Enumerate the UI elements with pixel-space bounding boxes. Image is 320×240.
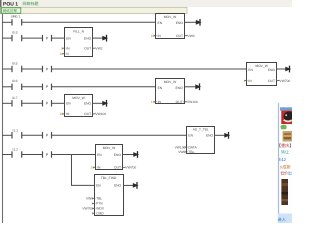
svg-text:P: P (46, 67, 49, 71)
wire contact to P (22, 102, 43, 104)
svg-text:EN: EN (96, 184, 101, 188)
value 10 on IN pin U7 (90, 166, 96, 170)
wire rail to contact (2, 37, 12, 39)
contact I0.6 (12, 84, 22, 90)
wire contact to P (22, 134, 43, 136)
network comment row (1, 7, 188, 13)
contact P positive edge (43, 66, 52, 72)
svg-text:ENO: ENO (206, 134, 214, 138)
value 10 on N pin U2 (59, 52, 65, 56)
block U8 TBL_FIND (95, 175, 124, 216)
block U7 MOV_W (96, 145, 123, 170)
value 1 on IN pin U3 (243, 79, 247, 83)
ENO arrow net 4 (184, 83, 201, 90)
value VW0 on TBL pin U8 (86, 197, 95, 201)
svg-text:OUT: OUT (176, 100, 183, 104)
svg-text:I0.3: I0.3 (12, 30, 18, 34)
svg-text:POU 1: POU 1 (3, 1, 18, 7)
svg-text:FILL_N: FILL_N (73, 29, 84, 33)
svg-text:I0.6: I0.6 (12, 79, 18, 83)
block U4 MOV_W (156, 79, 185, 105)
svg-text:VW700: VW700 (280, 79, 291, 83)
wire P to block U3 (52, 68, 247, 70)
contact I0.5 (12, 66, 22, 72)
svg-text:VW100: VW100 (95, 112, 106, 116)
wire rail to contact (2, 154, 12, 156)
svg-text:OUT: OUT (84, 47, 91, 51)
value VW100 on OUT pin U5 (92, 112, 106, 116)
value VW700 on INDX pin U8 (82, 207, 95, 211)
svg-text:CMD: CMD (96, 212, 104, 216)
svg-text:I0.5: I0.5 (12, 61, 18, 65)
svg-text:EN: EN (66, 36, 71, 40)
svg-text:VW700: VW700 (82, 207, 93, 211)
svg-text:ENO: ENO (176, 21, 184, 25)
svg-text:P: P (46, 153, 49, 157)
svg-text:VW100: VW100 (175, 145, 186, 149)
svg-text:ENO: ENO (175, 86, 183, 90)
svg-text:网络注释: 网络注释 (3, 8, 18, 13)
svg-text:【重庆】: 【重庆】 (277, 143, 292, 148)
ENO arrow U8 (123, 182, 139, 189)
svg-text:DATA: DATA (188, 145, 197, 149)
contact I0.7 (12, 100, 22, 106)
contact P positive edge (43, 151, 52, 157)
block U3 MOV_W (247, 63, 277, 86)
block U1 MOV_W (156, 14, 185, 39)
svg-text:AD_T_TBL: AD_T_TBL (193, 128, 209, 132)
svg-text:OUT: OUT (114, 166, 121, 170)
svg-text:ENO: ENO (84, 102, 92, 106)
left power rail (2, 14, 4, 223)
svg-text:ENO: ENO (114, 184, 122, 188)
contact P positive edge (43, 100, 52, 106)
wire rail to contact (2, 134, 12, 136)
value 10 on IN pin U5 (59, 112, 65, 116)
svg-text:网络标题: 网络标题 (23, 1, 39, 6)
value VW0 on OUT pin U1 (184, 34, 195, 38)
wire P to block U5 (52, 102, 65, 104)
contact P positive edge (43, 84, 52, 90)
value VW700 on OUT pin U3 (276, 79, 290, 83)
svg-text:ENO: ENO (84, 36, 92, 40)
svg-text:TBL: TBL (96, 197, 102, 201)
svg-text:TBL: TBL (188, 150, 194, 154)
svg-text:INDX: INDX (96, 207, 105, 211)
svg-text:MOV_W: MOV_W (164, 15, 177, 19)
contact I1.2 (12, 151, 22, 157)
svg-text:SM0.1: SM0.1 (11, 15, 21, 19)
svg-text:TBL_FIND: TBL_FIND (101, 176, 117, 180)
svg-text:EN: EN (158, 86, 163, 90)
svg-text:EN: EN (248, 68, 253, 72)
svg-text:MOV_W: MOV_W (255, 64, 268, 68)
wire contact to P (22, 154, 43, 156)
svg-text:PTN: PTN (96, 202, 103, 206)
header bar POU 1 (0, 0, 292, 14)
svg-text:VW2: VW2 (96, 47, 103, 51)
ENO arrow net 3 (277, 66, 291, 73)
value VW0 on TBL pin U6 (178, 150, 187, 154)
wire contact to block U1 (22, 21, 156, 23)
ENO arrow net 5 (93, 100, 108, 107)
value VW700 on OUT pin U7 (122, 166, 136, 170)
svg-text:VW700: VW700 (125, 166, 136, 170)
wire rail to contact (2, 68, 12, 70)
value 1 on PTN pin U8 (91, 202, 95, 206)
ENO arrow net 6 (215, 132, 230, 139)
value 10 on IN pin U1 (151, 34, 157, 38)
wire P to block U7 (52, 154, 96, 156)
block U5 MOV_W (65, 95, 93, 117)
svg-text:OUT: OUT (268, 79, 275, 83)
value 0 on IN pin U2 (61, 47, 65, 51)
svg-text:转让: 转让 (281, 149, 289, 154)
contact I0.3 (12, 35, 22, 41)
svg-text:h1z: h1z (279, 157, 286, 162)
svg-text:P: P (46, 102, 49, 106)
svg-text:OUT: OUT (176, 34, 183, 38)
contact P positive edge (43, 132, 52, 138)
contact P positive edge (43, 35, 52, 41)
wire P to block U2 (52, 37, 65, 39)
wire rail to contact (2, 102, 12, 104)
svg-text:EN: EN (158, 21, 163, 25)
svg-text:I0.7: I0.7 (12, 96, 18, 100)
svg-text:MOV_W: MOV_W (103, 146, 116, 150)
branch wire to block U8 (71, 184, 94, 186)
svg-text:MOV_W: MOV_W (72, 96, 85, 100)
svg-text:OUT: OUT (84, 112, 91, 116)
svg-text:EN: EN (66, 102, 71, 106)
value VW100 on OUT pin U4 (183, 100, 197, 104)
block U6 AD_T_TBL (187, 127, 215, 155)
contact SM0.1 (12, 19, 22, 25)
svg-text:VW0: VW0 (188, 34, 195, 38)
wire contact to P (22, 86, 43, 88)
value VW2 on OUT pin U2 (92, 47, 103, 51)
svg-text:I1.2: I1.2 (13, 148, 19, 152)
contact I1.1 (12, 132, 22, 138)
value 1 on CMD pin U8 (91, 212, 95, 216)
svg-text:MOV_W: MOV_W (164, 80, 177, 84)
svg-text:P: P (46, 134, 49, 138)
svg-text:低价出: 低价出 (280, 170, 292, 175)
wire rail to contact (2, 21, 12, 23)
value 10 on IN pin U4 (151, 100, 157, 104)
svg-text:P: P (46, 85, 49, 89)
ENO arrow U7 (123, 151, 139, 158)
svg-text:9成新: 9成新 (280, 164, 292, 169)
svg-text:ENO: ENO (268, 68, 276, 72)
ENO arrow net 2 (93, 35, 108, 42)
branch wire down (71, 155, 73, 186)
wire contact to P (22, 68, 43, 70)
svg-text:进入: 进入 (278, 217, 287, 222)
wire P to block U4 (52, 86, 156, 88)
svg-text:P: P (46, 37, 49, 41)
ENO arrow net 1 (185, 19, 202, 26)
svg-text:EN: EN (97, 153, 102, 157)
svg-text:I1.1: I1.1 (13, 129, 19, 133)
svg-text:VW100: VW100 (187, 100, 198, 104)
svg-text:EN: EN (188, 134, 193, 138)
svg-text:ENO: ENO (114, 153, 122, 157)
block U2 FILL_N (65, 28, 93, 57)
wire contact to P contact (22, 37, 43, 39)
wire rail to contact (2, 86, 12, 88)
value VW100 on DATA pin U6 (175, 145, 188, 149)
wire P to block U6 (52, 134, 187, 136)
